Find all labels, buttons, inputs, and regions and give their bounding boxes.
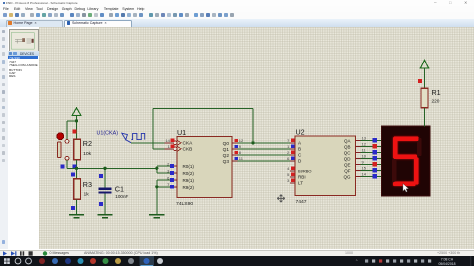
- wire: VCC to R1: [423, 68, 425, 88]
- U1 pin name CKA: [182, 141, 193, 147]
- wire: bus to R3 top: [75, 168, 77, 178]
- state square U2 BI/RBO: [290, 167, 294, 171]
- decoder U2 7447 body: [294, 136, 354, 195]
- U1 pin Q0 (12) stub: [232, 142, 237, 144]
- U2 pin name RBI: [297, 175, 305, 180]
- status bar: [0, 250, 474, 258]
- state square U2 A: [290, 139, 294, 143]
- R2 value 10k: [83, 151, 92, 157]
- U2 pin number 12: [361, 142, 366, 147]
- svg-text:⌃: ⌃: [355, 258, 358, 263]
- U2 value label 7447: [295, 199, 306, 205]
- U2 pin BI/RBO (4) stub: [289, 170, 294, 172]
- state square U2 RBI: [290, 173, 294, 177]
- svg-text:15: 15: [361, 166, 366, 171]
- U2 pin name QA: [344, 139, 350, 144]
- U1 pin CKA (14) stub + bubble: [164, 140, 181, 145]
- state square Q1: [234, 145, 237, 148]
- wire: clock to CKA: [131, 142, 164, 144]
- wire: branch to button: [67, 121, 76, 140]
- svg-text:BI/RBO: BI/RBO: [297, 169, 311, 174]
- state square U2 C: [290, 151, 294, 155]
- wire: U1 output row y=143 to U2 input: [237, 142, 289, 144]
- svg-text:QB: QB: [344, 145, 350, 150]
- svg-text:Q0: Q0: [222, 141, 229, 147]
- R3 label: [82, 180, 91, 189]
- svg-text:U1(CKA): U1(CKA): [96, 131, 118, 137]
- net label U1(CKA): [96, 131, 118, 137]
- state square U2 B: [290, 145, 294, 149]
- svg-text:B: B: [297, 147, 300, 152]
- svg-text:14: 14: [165, 138, 170, 143]
- state square R0(1): [170, 164, 174, 168]
- wire: R2 bottom to bus: [75, 160, 77, 168]
- resistor R1: [421, 88, 428, 107]
- C1 label: [114, 184, 123, 193]
- svg-text:U2: U2: [295, 127, 304, 136]
- U2 pin name QE: [344, 163, 350, 168]
- U2 pin D (6) stub: [289, 160, 294, 162]
- state square QF: [372, 168, 376, 172]
- svg-text:100nF: 100nF: [115, 194, 128, 199]
- junction: C1/bus: [103, 167, 106, 170]
- svg-text:05/04/2018: 05/04/2018: [439, 262, 456, 266]
- U1 pin Q3 (11) stub: [232, 160, 237, 162]
- wire: QC to display: [360, 151, 381, 153]
- svg-text:Q2: Q2: [222, 153, 229, 159]
- U1 pin name Q2: [222, 153, 229, 159]
- U1 pin number 6: [167, 175, 170, 180]
- wire: R1 to display common anode: [423, 108, 425, 126]
- segment A (lit): [393, 137, 419, 141]
- wire: horizontal reset bus: [67, 167, 157, 169]
- svg-text:R0(2): R0(2): [182, 171, 194, 176]
- U2 pin QC (11) stub: [355, 151, 360, 153]
- state square QE: [372, 162, 376, 166]
- U1 pin number 9: [238, 144, 241, 149]
- segment C (lit): [414, 158, 418, 185]
- svg-text:CKB: CKB: [182, 147, 192, 153]
- U1 pin number 1: [167, 144, 170, 149]
- node junction at VCC branch: [74, 119, 77, 122]
- U2 pin name QD: [343, 157, 350, 162]
- svg-text:12: 12: [361, 142, 366, 147]
- schematic editor canvas: [39, 27, 474, 249]
- wire: QD to display: [360, 157, 381, 159]
- wire: button bottom to bus: [66, 160, 68, 168]
- svg-text:10: 10: [361, 154, 366, 159]
- wire: U1 output row y=155 to U2 input: [237, 154, 289, 156]
- U2 pin name QF: [344, 169, 350, 174]
- wire: VCC to R2 top: [75, 121, 77, 139]
- state square Q2: [234, 151, 237, 154]
- U2 pin number 14: [361, 172, 366, 177]
- junction: Q0/feedback: [251, 141, 254, 144]
- ground symbol under R9 riser: [149, 214, 164, 219]
- C1 value 100nF: [115, 194, 128, 199]
- logic-state square (high) on R2 top wire: [72, 129, 76, 133]
- state square Q0: [234, 139, 237, 142]
- sidebar: overview minimap + device list: [8, 27, 39, 249]
- svg-text:14: 14: [361, 172, 366, 177]
- svg-text:LT: LT: [297, 181, 302, 186]
- ground symbol under C1: [97, 214, 112, 219]
- logic-state square (low) at button bottom: [60, 165, 64, 169]
- U2 pin number 4: [287, 166, 290, 171]
- U2 pin C (2) stub: [289, 154, 294, 156]
- state square Q3: [234, 157, 237, 160]
- U2 pin RBI (5) stub: [289, 176, 294, 178]
- svg-text:R3: R3: [82, 180, 91, 189]
- resistor R2: [73, 139, 80, 159]
- state square R0(2): [170, 171, 174, 175]
- state square QC: [372, 150, 376, 154]
- segment D (lit): [393, 182, 416, 186]
- wire: R9 pins riser to ground: [156, 180, 169, 214]
- R3 value 1k: [83, 192, 89, 198]
- R2 label: [82, 139, 91, 148]
- U1 reference label: [177, 128, 186, 137]
- svg-text:10k: 10k: [83, 151, 92, 157]
- svg-text:74LS90: 74LS90: [176, 201, 193, 207]
- svg-text:QE: QE: [344, 163, 350, 168]
- svg-text:R0(1): R0(1): [182, 164, 194, 169]
- U2 pin name QB: [344, 145, 350, 150]
- U2 pin number 13: [361, 136, 366, 141]
- U2 pin name D: [297, 159, 301, 164]
- U1 pin name R0(1): [182, 164, 194, 169]
- svg-text:R9(2): R9(2): [182, 185, 194, 190]
- state square QA: [372, 138, 376, 142]
- state square U2 D: [290, 157, 294, 161]
- R1 label: [431, 88, 440, 97]
- U2 pin number 5: [287, 172, 290, 177]
- U2 pin number 1: [287, 144, 290, 149]
- U1 pin R0(1) (2) stub: [170, 165, 177, 167]
- U2 pin QF (15) stub: [355, 169, 360, 171]
- ground symbol under R3: [68, 214, 83, 219]
- U1 pin R9(1) (6) stub: [170, 179, 177, 181]
- U2 pin A (7) stub: [289, 142, 294, 144]
- segment G (lit): [393, 155, 417, 159]
- svg-text:220: 220: [431, 99, 439, 105]
- svg-text:QC: QC: [343, 151, 350, 156]
- U1 pin R0(2) (3) stub: [170, 172, 177, 174]
- U2 pin number 3: [287, 178, 290, 183]
- menu bar: [0, 6, 474, 12]
- wire: U1 output row y=149 to U2 input: [237, 148, 289, 150]
- U2 pin name B: [297, 147, 300, 152]
- U1 pin CKB (1) stub + bubble: [164, 146, 181, 151]
- state square CKB: [170, 145, 174, 149]
- U2 pin QA (13) stub: [355, 139, 360, 141]
- junction: R9 riser: [155, 185, 158, 188]
- U2 pin QE (9) stub: [355, 163, 360, 165]
- U2 pin name QC: [343, 151, 350, 156]
- svg-text:7447: 7447: [295, 199, 306, 205]
- svg-text:13: 13: [361, 136, 366, 141]
- U1 pin Q2 (8) stub: [232, 154, 237, 156]
- svg-text:U1: U1: [177, 128, 186, 137]
- capacitor C1: [98, 188, 111, 194]
- svg-text:CKA: CKA: [182, 141, 193, 147]
- U2 pin number 9: [361, 160, 364, 165]
- U2 pin number 7: [287, 138, 290, 143]
- svg-text:1k: 1k: [83, 192, 89, 198]
- U1 pin name CKB: [182, 147, 192, 153]
- wire: U1 output row y=161 to U2 input: [237, 160, 289, 162]
- logic-state square (low) at R2 bottom: [72, 165, 76, 169]
- wire: bus riser to R0 pins: [156, 166, 169, 173]
- tab bar: [0, 19, 474, 28]
- U1 pin number 14: [165, 138, 170, 143]
- svg-text:3: 3: [287, 178, 290, 183]
- segment E (unlit): [392, 159, 396, 183]
- wire: QA to display: [360, 139, 381, 141]
- op U1 74LS90 body: [177, 136, 232, 197]
- U2 pin name QG: [343, 175, 350, 180]
- U2 pin number 6: [287, 156, 290, 161]
- U1 pin name R9(1): [182, 178, 194, 183]
- svg-text:QG: QG: [343, 175, 350, 180]
- move/pan cursor marker: [277, 195, 285, 203]
- U2 pin number 10: [361, 154, 366, 159]
- U2 pin number 15: [361, 166, 366, 171]
- segment F (lit): [393, 138, 397, 157]
- wire: bus to C1 top: [104, 168, 106, 187]
- left mode toolbar: [0, 27, 9, 249]
- state square CKA: [170, 139, 174, 143]
- U2 pin name BI/RBO: [297, 169, 311, 174]
- wire: QB to display: [360, 145, 381, 147]
- svg-text:R9(1): R9(1): [182, 178, 194, 183]
- U1 pin number 8: [238, 150, 241, 155]
- svg-text:R2: R2: [82, 139, 91, 148]
- U1 pin R9(2) (7) stub: [170, 186, 177, 188]
- R1 value 220: [431, 99, 439, 105]
- pushbutton (BUTTON): [56, 133, 68, 160]
- state square U2 LT: [290, 179, 294, 183]
- U2 reference label: [295, 127, 304, 136]
- U2 pin name C: [297, 153, 301, 158]
- svg-text:5: 5: [287, 172, 290, 177]
- junction: bus/R0 riser: [155, 167, 158, 170]
- state square QD: [372, 156, 376, 160]
- main toolbar: [0, 12, 474, 21]
- svg-text:QA: QA: [344, 139, 350, 144]
- svg-text:R1: R1: [431, 88, 440, 97]
- digit glow underlay: [393, 137, 419, 187]
- U1 pin number 11: [238, 156, 243, 161]
- wire: QF to display: [360, 169, 381, 171]
- svg-text:Q3: Q3: [222, 159, 229, 165]
- svg-text:RBI: RBI: [297, 175, 305, 180]
- U1 pin name R9(2): [182, 185, 194, 190]
- power terminal VCC (right): [420, 61, 429, 69]
- U1 pin name R0(2): [182, 171, 194, 176]
- U1 pin number 7: [167, 182, 170, 187]
- U1 pin name Q3: [222, 159, 229, 165]
- state square QG: [372, 174, 376, 178]
- logic-state squares on C1 pins: [98, 174, 102, 206]
- state square R9(2): [170, 185, 174, 189]
- svg-text:1: 1: [167, 144, 170, 149]
- logic-state squares on R3 pins: [71, 173, 75, 211]
- U2 pin B (1) stub: [289, 148, 294, 150]
- clock generator waveform glyph: [121, 133, 144, 142]
- wire: R3 bottom to ground: [75, 199, 77, 213]
- segment B (unlit): [417, 138, 421, 156]
- U2 pin QB (12) stub: [355, 145, 360, 147]
- state square R9(1): [170, 178, 174, 182]
- wire: C1 bottom to ground: [104, 194, 106, 214]
- mouse cursor over display: [402, 184, 408, 192]
- wire: QE to display: [360, 163, 381, 165]
- U2 pin number 2: [287, 150, 290, 155]
- svg-text:QF: QF: [344, 169, 350, 174]
- U2 pin number 11: [361, 148, 366, 153]
- U2 pin QG (14) stub: [355, 175, 360, 177]
- U1 pin name Q0: [222, 141, 229, 147]
- power terminal VCC (left): [72, 108, 81, 121]
- windows taskbar: [0, 256, 474, 266]
- U1 pin number 2: [167, 162, 170, 167]
- svg-text:4: 4: [287, 166, 290, 171]
- U1 value label 74LS90: [176, 201, 193, 207]
- U2 pin name LT: [297, 181, 302, 186]
- U2 pin QD (10) stub: [355, 157, 360, 159]
- 7-segment display body: [381, 126, 429, 196]
- title bar: [0, 0, 474, 6]
- U1 pin Q1 (9) stub: [232, 148, 237, 150]
- svg-text:Q1: Q1: [222, 147, 229, 153]
- U1 pin number 3: [167, 168, 170, 173]
- svg-text:C1: C1: [114, 184, 123, 193]
- state square R1 top: [418, 79, 422, 83]
- U1 pin number 12: [238, 138, 243, 143]
- U2 pin LT (3) stub: [289, 182, 294, 184]
- U2 pin name A: [297, 141, 301, 146]
- svg-text:QD: QD: [343, 157, 350, 162]
- U1 pin name Q1: [222, 147, 229, 153]
- wire: QG to display: [360, 175, 381, 177]
- junction: R2/bus: [74, 167, 77, 170]
- resistor R3: [73, 179, 80, 199]
- state square QB: [372, 144, 376, 148]
- wire: Q0 feedback loop to CKB: [153, 108, 253, 148]
